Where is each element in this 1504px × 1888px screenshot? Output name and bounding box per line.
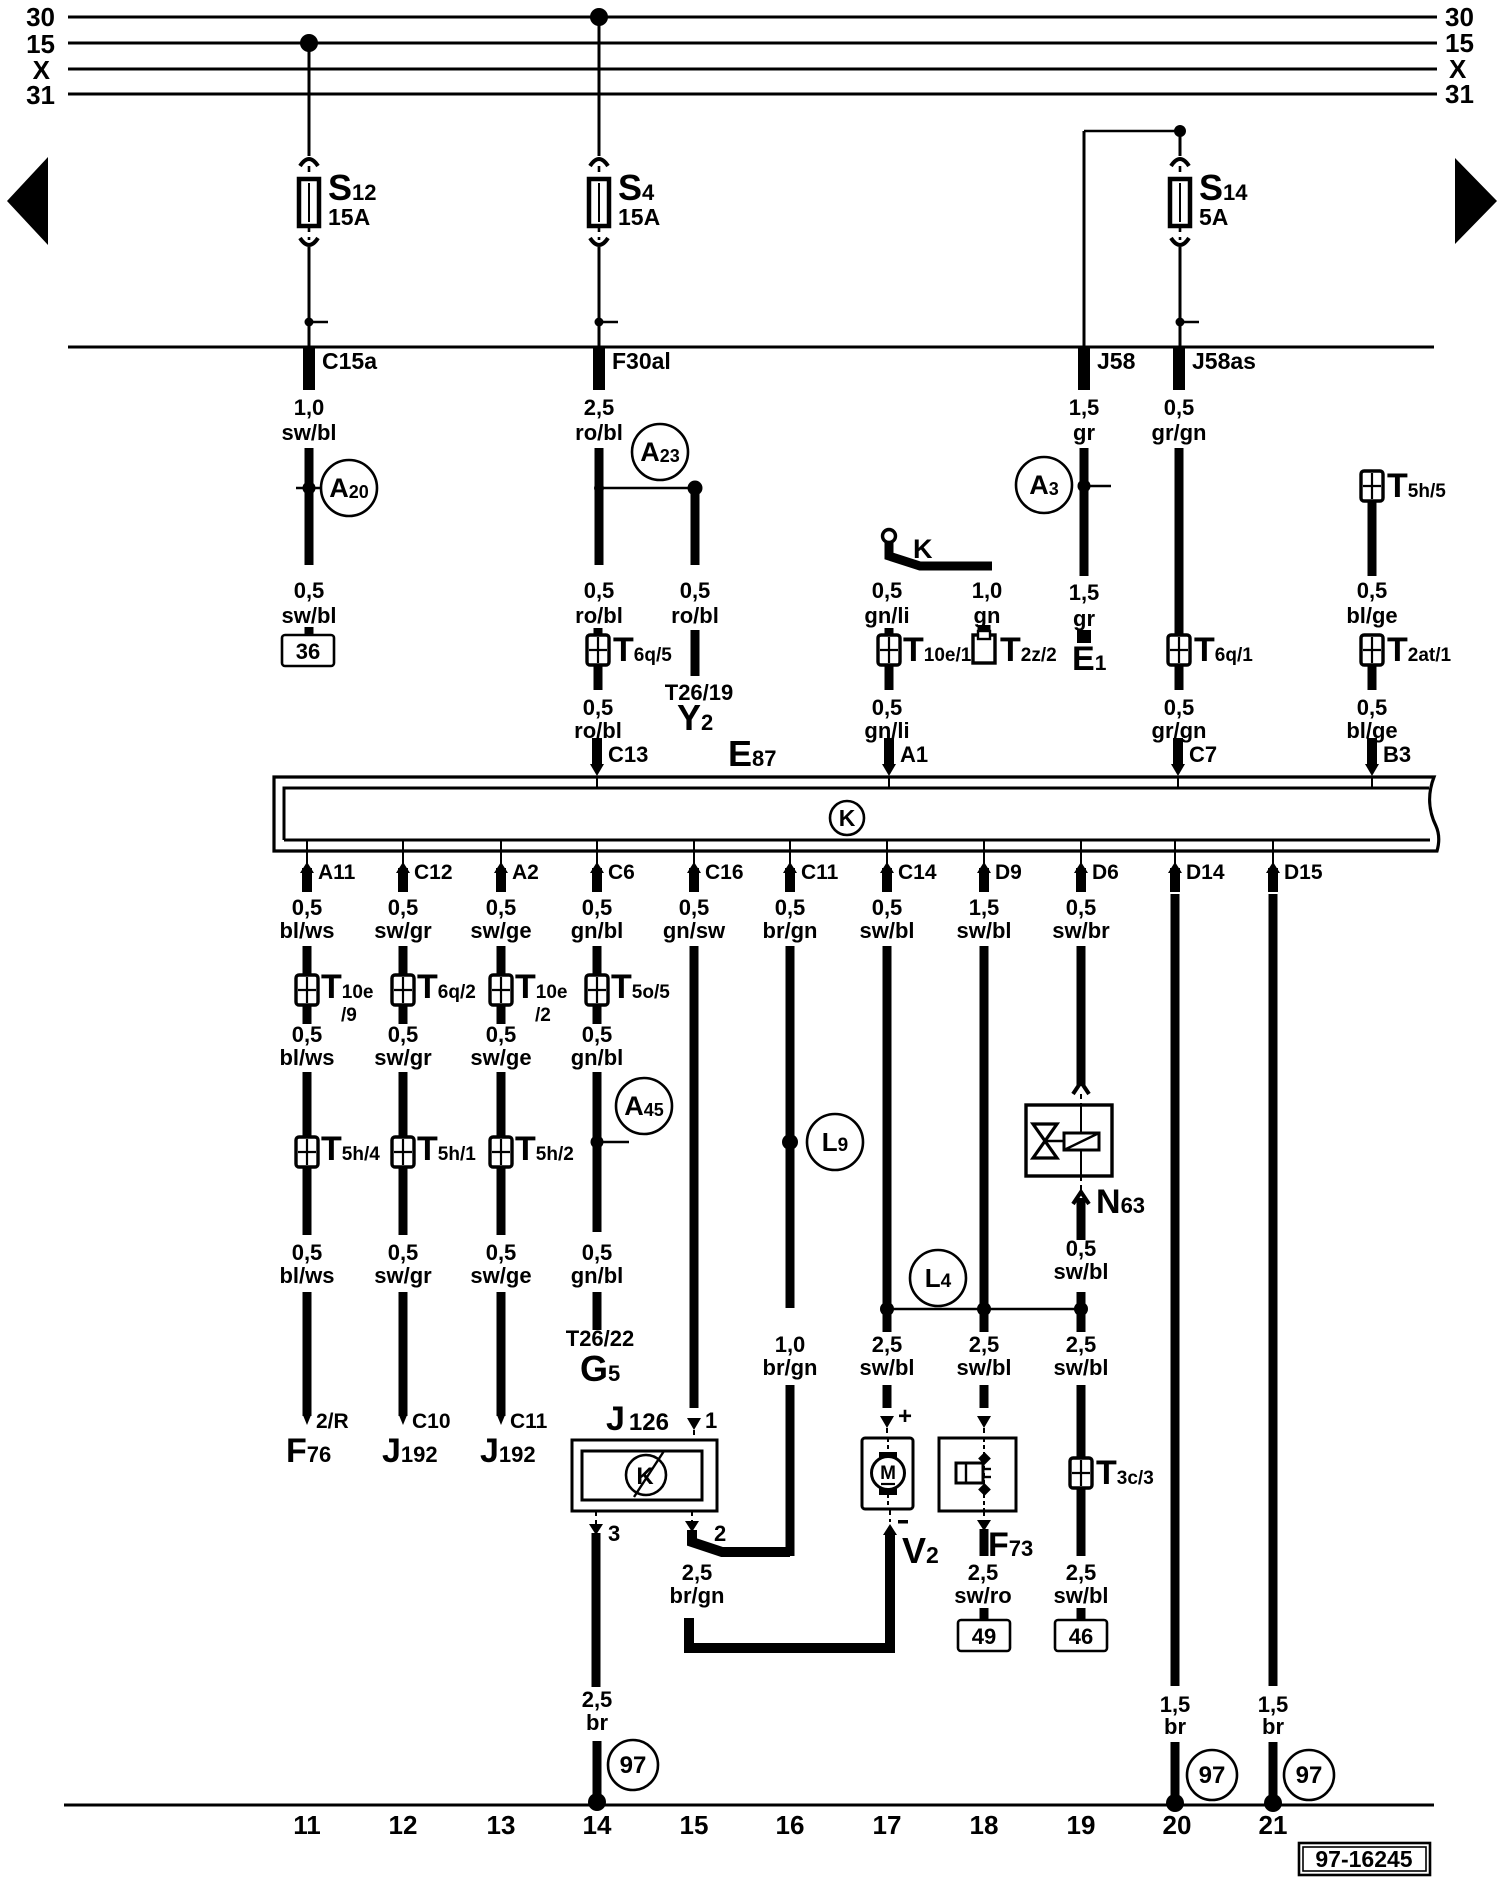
svg-text:0,5: 0,5 [1357, 695, 1388, 720]
ground 36 [282, 635, 334, 666]
terminal C11 [783, 841, 839, 892]
svg-text:sw/bl: sw/bl [281, 603, 336, 628]
motor V2 [862, 1438, 913, 1509]
label 1,5 gr [1069, 580, 1100, 631]
svg-text:16: 16 [776, 1810, 805, 1840]
svg-text:0,5: 0,5 [775, 895, 806, 920]
wire [497, 1004, 506, 1024]
connector T5h/4 [296, 1130, 380, 1168]
svg-text:2,5: 2,5 [1066, 1332, 1097, 1357]
relay N63 [1026, 1105, 1145, 1221]
light switch E1 [1072, 630, 1107, 678]
track number 21 [1259, 1810, 1288, 1840]
svg-text:0,5: 0,5 [583, 695, 614, 720]
wire [303, 1292, 312, 1425]
label 2,5 sw/bl [956, 1332, 1011, 1380]
svg-text:1,0: 1,0 [775, 1332, 806, 1357]
pin 1 [705, 1408, 717, 1433]
wire [497, 1072, 506, 1138]
ground rail [64, 1804, 1434, 1807]
svg-text:18: 18 [970, 1810, 999, 1840]
connector T10e/9 [296, 968, 373, 1026]
component F76 [286, 1432, 331, 1470]
wire [399, 1166, 408, 1235]
node A45 [591, 1078, 673, 1149]
J126 pin 3 [589, 1511, 620, 1546]
horn contact K [883, 530, 993, 567]
svg-text:2,5: 2,5 [969, 1332, 1000, 1357]
terminal D9 [977, 841, 1022, 892]
svg-text:K: K [636, 1463, 654, 1490]
label 0,5 gn/bl [571, 895, 624, 943]
wire gr J58 [1080, 448, 1089, 576]
svg-text:1,0: 1,0 [972, 578, 1003, 603]
terminal D15 [1266, 841, 1323, 892]
svg-text:sw/bl: sw/bl [859, 1355, 914, 1380]
label 0,5 gn/bl [571, 1240, 624, 1288]
label 0,5 bl/ws [279, 895, 334, 943]
terminal J58as [1173, 348, 1256, 390]
fuse S12 15A [299, 43, 377, 347]
junction on bus 15 [300, 34, 318, 52]
label 0,5 sw/br [1052, 895, 1110, 943]
svg-text:0,5: 0,5 [388, 1022, 419, 1047]
track number 13 [487, 1810, 516, 1840]
wire br/gn C11 [786, 946, 795, 1308]
label 0,5 sw/gr [374, 1022, 432, 1070]
node L4 [880, 1250, 1088, 1316]
svg-text:sw/ro: sw/ro [954, 1583, 1011, 1608]
junction on bus 30 [590, 8, 608, 26]
label 2,5 ro/bl [575, 395, 623, 445]
svg-text:15A: 15A [618, 204, 660, 230]
connector T10e/2 [490, 968, 567, 1026]
F73 bottom pin [977, 1511, 991, 1556]
svg-text:gn/bl: gn/bl [571, 1045, 624, 1070]
svg-text:C11: C11 [510, 1410, 548, 1433]
label 2,5 sw/bl [1053, 1560, 1108, 1608]
wire bl/ge [1368, 500, 1377, 576]
fuse S4 15A [589, 17, 660, 347]
wire [497, 1292, 506, 1425]
connector T6q/1 [1168, 631, 1253, 669]
wire [399, 1292, 408, 1425]
wire J58 branch bracket [1084, 125, 1186, 347]
svg-text:ro/bl: ro/bl [671, 603, 719, 628]
label 0,5 bl/ws [279, 1240, 334, 1288]
bus 30 [26, 2, 1474, 32]
wire to ground 97 [1166, 1742, 1184, 1812]
svg-text:0,5: 0,5 [680, 578, 711, 603]
svg-text:br: br [1262, 1714, 1284, 1739]
label 0,5 gn/li [864, 578, 909, 628]
label 1,5 sw/bl [956, 895, 1011, 943]
svg-text:12: 12 [389, 1810, 418, 1840]
svg-text:C11: C11 [801, 861, 839, 884]
svg-text:+: + [898, 1403, 912, 1430]
connector T6q/5 [587, 631, 672, 669]
node A3 [1016, 457, 1111, 513]
label 1,5 br [1258, 1692, 1289, 1739]
svg-text:sw/bl: sw/bl [1053, 1583, 1108, 1608]
wire to T10e/1 [885, 628, 894, 636]
svg-text:49: 49 [972, 1624, 996, 1649]
svg-text:0,5: 0,5 [292, 1022, 323, 1047]
terminal C7 [1171, 738, 1217, 788]
label 0,5 sw/ge [470, 895, 531, 943]
svg-text:gn/bl: gn/bl [571, 918, 624, 943]
svg-text:0,5: 0,5 [486, 1022, 517, 1047]
svg-text:0,5: 0,5 [584, 578, 615, 603]
label 0,5 gr/gn [1152, 395, 1207, 445]
svg-text:gr/gn: gr/gn [1152, 420, 1207, 445]
wire to T3c/3 [1077, 1385, 1086, 1460]
svg-text:17: 17 [873, 1810, 902, 1840]
svg-text:0,5: 0,5 [1357, 578, 1388, 603]
label 0,5 gr/gn [1152, 695, 1207, 743]
svg-text:0,5: 0,5 [1164, 395, 1195, 420]
svg-text:0,5: 0,5 [582, 1022, 613, 1047]
label F73 [988, 1526, 1033, 1564]
svg-text:97: 97 [620, 1752, 647, 1779]
svg-text:C10: C10 [412, 1410, 451, 1433]
label J126 [606, 1400, 669, 1438]
svg-text:30: 30 [26, 2, 55, 32]
wire [593, 946, 602, 976]
svg-text:C7: C7 [1189, 742, 1217, 767]
svg-text:D9: D9 [995, 861, 1022, 884]
svg-text:sw/gr: sw/gr [374, 1263, 432, 1288]
J126 pin 2 [685, 1511, 726, 1546]
svg-text:C15a: C15a [322, 348, 377, 374]
connector T5o/5 [586, 968, 670, 1006]
wire [399, 1004, 408, 1024]
wire [303, 1166, 312, 1235]
wire [303, 946, 312, 976]
svg-text:A11: A11 [318, 861, 356, 884]
svg-text:0,5: 0,5 [1066, 1236, 1097, 1261]
label 1,0 sw/bl [281, 395, 336, 445]
svg-text:sw/bl: sw/bl [956, 1355, 1011, 1380]
wire [399, 1072, 408, 1138]
terminal A2 [494, 841, 539, 892]
svg-text:0,5: 0,5 [388, 1240, 419, 1265]
svg-text:C6: C6 [608, 861, 635, 884]
wire to T26/19 [691, 630, 700, 676]
node A23 [594, 424, 703, 496]
terminal C12 [396, 841, 453, 892]
wire to ground 97 [588, 1741, 606, 1811]
connector T10e/1 [878, 631, 972, 669]
svg-text:bl/ge: bl/ge [1346, 603, 1397, 628]
pin 2/R [316, 1410, 349, 1433]
label 2,5 br/gn [670, 1560, 725, 1608]
label 0,5 ro/bl [574, 695, 622, 743]
svg-text:0,5: 0,5 [1066, 895, 1097, 920]
wire [303, 1004, 312, 1024]
svg-text:14: 14 [583, 1810, 612, 1840]
svg-text:ro/bl: ro/bl [575, 420, 623, 445]
svg-text:97-16245: 97-16245 [1315, 1846, 1412, 1872]
pin T26/19 [665, 680, 734, 705]
svg-text:D14: D14 [1186, 861, 1225, 884]
svg-text:C12: C12 [414, 861, 453, 884]
right continuation arrow [1455, 158, 1497, 244]
pin C11 [510, 1410, 548, 1433]
svg-text:97: 97 [1199, 1762, 1226, 1789]
main rail [68, 346, 1434, 349]
svg-text:0,5: 0,5 [486, 895, 517, 920]
svg-text:0,5: 0,5 [582, 895, 613, 920]
svg-text:C14: C14 [898, 861, 937, 884]
wire br/gn to J126 pin2 [786, 1385, 795, 1556]
svg-text:br: br [1164, 1714, 1186, 1739]
track number 15 [680, 1810, 709, 1840]
pin + [898, 1403, 912, 1430]
svg-text:0,5: 0,5 [679, 895, 710, 920]
track number 14 [583, 1810, 612, 1840]
wire [399, 946, 408, 976]
label 1,5 br [1160, 1692, 1191, 1739]
wire gn/bl to G5 [593, 1292, 602, 1330]
svg-text:J58as: J58as [1192, 348, 1256, 374]
wire br/gn jumper to V2 [689, 1510, 897, 1648]
bus 15 [26, 28, 1474, 59]
svg-text:31: 31 [1445, 79, 1474, 109]
ground node 97 [1187, 1750, 1237, 1800]
svg-text:sw/bl: sw/bl [281, 420, 336, 445]
label 0,5 gn/li [864, 695, 909, 743]
wire br D14 [1171, 894, 1180, 1686]
wire [593, 1004, 602, 1024]
wire to V2 plus [880, 1385, 894, 1438]
svg-text:97: 97 [1296, 1762, 1323, 1789]
svg-text:K: K [839, 805, 856, 831]
track number 20 [1163, 1810, 1192, 1840]
connector T2z/2 [973, 625, 1057, 669]
connector T5h/2 [490, 1130, 574, 1168]
ground node 97 [1284, 1750, 1334, 1800]
terminal A11 [300, 841, 356, 892]
label 0,5 bl/ge [1346, 695, 1397, 743]
terminal D14 [1168, 841, 1225, 892]
svg-text:11: 11 [293, 1810, 321, 1840]
svg-text:0,5: 0,5 [872, 695, 903, 720]
wire to ground 46 [1077, 1487, 1086, 1556]
svg-text:sw/bl: sw/bl [859, 918, 914, 943]
bus 31 [26, 79, 1474, 110]
pressure switch F73 [939, 1438, 1016, 1511]
wire ro/bl Y2 branch [691, 489, 700, 565]
svg-text:sw/ge: sw/ge [470, 1045, 531, 1070]
svg-text:/2: /2 [535, 1005, 551, 1026]
svg-text:F30al: F30al [612, 348, 671, 374]
label 0,5 ro/bl [575, 578, 623, 628]
svg-text:0,5: 0,5 [292, 895, 323, 920]
connector T5h/5 [1361, 467, 1446, 505]
bus X [33, 54, 1467, 85]
label 2,5 br [582, 1687, 613, 1735]
wire [303, 1072, 312, 1138]
svg-text:1,5: 1,5 [969, 895, 1000, 920]
svg-text:15A: 15A [328, 204, 370, 230]
svg-text:2/R: 2/R [316, 1410, 349, 1433]
wire [1077, 1608, 1086, 1620]
label 1,0 br/gn [763, 1332, 818, 1380]
wire gn/sw C16 to J126 pin1 [687, 946, 701, 1440]
terminal D6 [1074, 841, 1119, 892]
svg-text:gn: gn [974, 603, 1001, 628]
svg-text:21: 21 [1259, 1810, 1288, 1840]
svg-text:20: 20 [1163, 1810, 1192, 1840]
label 2,5 sw/bl [1053, 1332, 1108, 1380]
connector T6q/2 [392, 968, 476, 1006]
svg-text:sw/ge: sw/ge [470, 1263, 531, 1288]
wire T10e/1 to A1 [885, 664, 894, 690]
svg-text:gn/li: gn/li [864, 603, 909, 628]
track number 12 [389, 1810, 418, 1840]
pin C10 [412, 1410, 451, 1433]
fuse S14 5A [1170, 131, 1248, 347]
svg-text:sw/bl: sw/bl [956, 918, 1011, 943]
svg-text:M: M [880, 1463, 896, 1484]
svg-text:D6: D6 [1092, 861, 1119, 884]
ground node 97 [608, 1740, 658, 1790]
svg-text:K: K [913, 534, 933, 564]
control unit J126 [572, 1440, 717, 1511]
wire [497, 1166, 506, 1235]
terminal B3 [1365, 738, 1411, 788]
label 0,5 sw/gr [374, 1240, 432, 1288]
svg-text:ro/bl: ro/bl [575, 603, 623, 628]
svg-text:sw/gr: sw/gr [374, 918, 432, 943]
label 0,5 sw/gr [374, 895, 432, 943]
wire [1077, 1292, 1086, 1332]
drawing number 97-16245 [1299, 1843, 1430, 1875]
wire [497, 946, 506, 976]
label 0,5 sw/ge [470, 1022, 531, 1070]
component J192 [382, 1432, 438, 1470]
svg-text:2,5: 2,5 [872, 1332, 903, 1357]
wire br J126-3 [592, 1533, 601, 1687]
label 1,5 gr [1069, 395, 1100, 445]
svg-text:/9: /9 [341, 1005, 357, 1026]
label 2,5 sw/ro [954, 1560, 1011, 1608]
wire N63 out [1073, 1176, 1089, 1240]
wire [980, 1608, 989, 1620]
terminal C14 [880, 841, 937, 892]
svg-text:2,5: 2,5 [1066, 1560, 1097, 1585]
track number 16 [776, 1810, 805, 1840]
wire br D15 [1269, 894, 1278, 1686]
label E87 [728, 733, 777, 774]
svg-text:0,5: 0,5 [486, 1240, 517, 1265]
svg-text:br/gn: br/gn [763, 1355, 818, 1380]
label 2,5 sw/bl [859, 1332, 914, 1380]
wire T6q/5 to C13 [594, 664, 603, 690]
svg-text:1,0: 1,0 [294, 395, 325, 420]
connector T5h/1 [392, 1130, 476, 1168]
svg-text:sw/bl: sw/bl [1053, 1355, 1108, 1380]
svg-text:0,5: 0,5 [582, 1240, 613, 1265]
svg-text:gr: gr [1073, 606, 1095, 631]
ground 46 [1055, 1620, 1107, 1651]
wire ro/bl F30al [595, 448, 604, 565]
wire to F73 [977, 1385, 991, 1438]
svg-text:2,5: 2,5 [582, 1687, 613, 1712]
terminal C13 [590, 738, 648, 788]
label 0,5 bl/ws [279, 1022, 334, 1070]
svg-text:3: 3 [608, 1521, 620, 1546]
svg-text:0,5: 0,5 [872, 578, 903, 603]
valve Y2 [677, 697, 713, 738]
ground 49 [958, 1620, 1010, 1651]
terminal F30al [593, 348, 671, 390]
label 0,5 sw/ge [470, 1240, 531, 1288]
svg-text:br/gn: br/gn [763, 918, 818, 943]
svg-text:19: 19 [1067, 1810, 1096, 1840]
svg-text:1,5: 1,5 [1069, 395, 1100, 420]
component J192 [480, 1432, 536, 1470]
track number 17 [873, 1810, 902, 1840]
svg-text:46: 46 [1069, 1624, 1093, 1649]
terminal A1 [882, 738, 928, 788]
label 0,5 sw/bl [1053, 1236, 1108, 1284]
terminal C6 [590, 841, 635, 892]
svg-text:2: 2 [714, 1521, 726, 1546]
svg-text:br: br [586, 1710, 608, 1735]
svg-text:15: 15 [680, 1810, 709, 1840]
label V2 [898, 1520, 939, 1571]
track number 11 [293, 1810, 321, 1840]
connector T2at/1 [1361, 631, 1452, 669]
node L9 [782, 1114, 863, 1170]
label 0,5 sw/bl [859, 895, 914, 943]
wire to T6q/5 [594, 628, 603, 636]
left continuation arrow [7, 157, 48, 245]
wire sw/br D6 [1073, 946, 1089, 1105]
terminal C16 [687, 841, 744, 892]
wire gn/bl long [593, 1072, 602, 1232]
svg-text:36: 36 [296, 639, 320, 664]
svg-text:bl/ws: bl/ws [279, 1045, 334, 1070]
svg-text:gr: gr [1073, 420, 1095, 445]
control unit K box [274, 777, 1439, 851]
svg-text:B3: B3 [1383, 742, 1411, 767]
svg-text:C16: C16 [705, 861, 744, 884]
wire T2at/1 to B3 [1368, 664, 1377, 690]
pin T26/22 [566, 1326, 635, 1351]
label 0,5 ro/bl [671, 578, 719, 628]
svg-text:sw/bl: sw/bl [1053, 1259, 1108, 1284]
node A20 [296, 460, 377, 516]
svg-text:5A: 5A [1199, 204, 1228, 230]
wire T6q/1 to C7 [1175, 664, 1184, 690]
wire to ground 97 [1264, 1742, 1282, 1812]
connector T3c/3 [1070, 1454, 1154, 1492]
svg-text:A1: A1 [900, 742, 928, 767]
label 0,5 sw/bl [281, 578, 336, 628]
track number 19 [1067, 1810, 1096, 1840]
svg-text:0,5: 0,5 [1164, 695, 1195, 720]
svg-text:2,5: 2,5 [584, 395, 615, 420]
svg-text:J58: J58 [1097, 348, 1136, 374]
svg-text:bl/ws: bl/ws [279, 1263, 334, 1288]
label 0,5 gn/bl [571, 1022, 624, 1070]
svg-text:1: 1 [705, 1408, 717, 1433]
sensor G5 [580, 1348, 620, 1389]
label 0,5 bl/ge [1346, 578, 1397, 628]
